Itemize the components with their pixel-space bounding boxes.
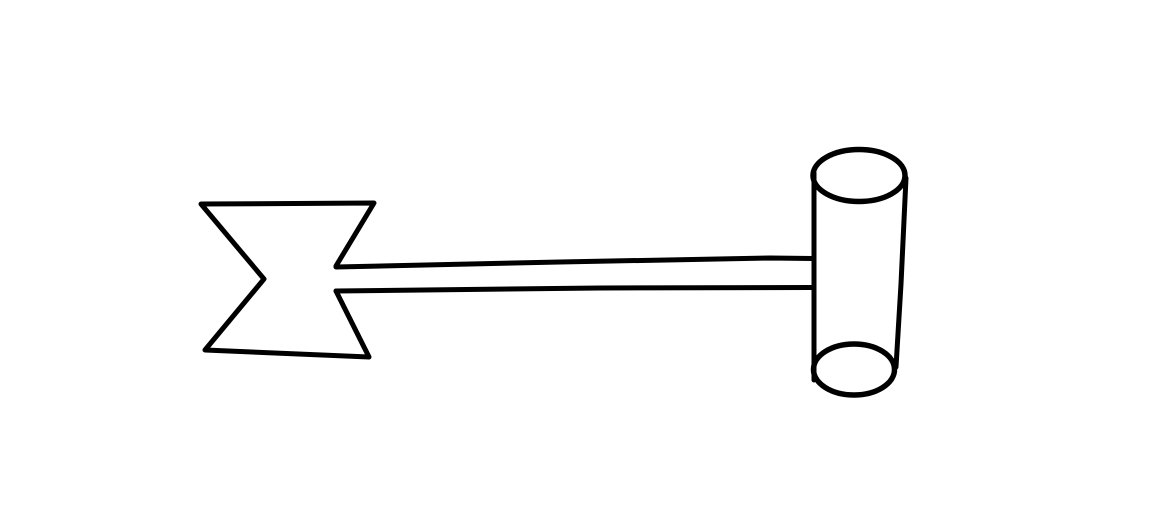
shaft top line bbox=[336, 258, 812, 267]
cylinder left edge bbox=[812, 173, 817, 380]
arrow-fletching (bowtie) outline bbox=[201, 203, 374, 357]
shaft bottom line bbox=[336, 288, 812, 292]
cylinder bottom ellipse bbox=[814, 344, 895, 395]
cylinder top ellipse bbox=[813, 150, 905, 202]
cylinder right edge bbox=[896, 178, 906, 367]
